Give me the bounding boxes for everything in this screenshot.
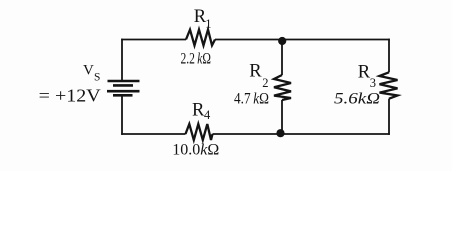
svg-text:= +12V: = +12V [39,85,101,105]
resistor R1 zigzag [186,30,215,46]
wire right vertical above R3 [388,39,390,73]
wire left vertical above battery [121,39,123,80]
wire bottom left to R4 [121,133,185,135]
svg-text:S: S [94,72,100,84]
wire top left to R1 [121,39,186,41]
wire middle branch below R2 [281,100,283,134]
svg-text:10.0kΩ: 10.0kΩ [172,142,219,159]
svg-text:5.6kΩ: 5.6kΩ [334,91,380,108]
svg-text:2: 2 [262,76,268,90]
resistor R3 zigzag [380,72,398,98]
battery VS plate long 2 [107,90,140,93]
wire R1 to top-right corner [215,39,390,41]
resistor R2 zigzag [274,75,291,100]
svg-text:3: 3 [370,76,376,90]
svg-text:4: 4 [204,108,211,122]
wire middle branch above R2 [281,40,283,76]
junction node dot top [278,37,286,45]
battery VS plate long 1 [108,80,140,83]
wire R4 to bottom-right corner [213,133,390,135]
battery VS plate short 1 [113,84,133,87]
wire right vertical below R3 [388,99,390,135]
svg-text:2.2 kΩ: 2.2 kΩ [181,51,212,68]
svg-text:V: V [83,62,94,78]
svg-text:R: R [249,61,262,81]
battery VS plate short 2 [113,94,133,97]
svg-text:4.7 kΩ: 4.7 kΩ [234,91,269,108]
wire left vertical below battery [121,97,123,135]
svg-text:1: 1 [205,17,211,31]
junction node dot bottom [276,129,284,137]
resistor R4 zigzag [186,124,213,140]
